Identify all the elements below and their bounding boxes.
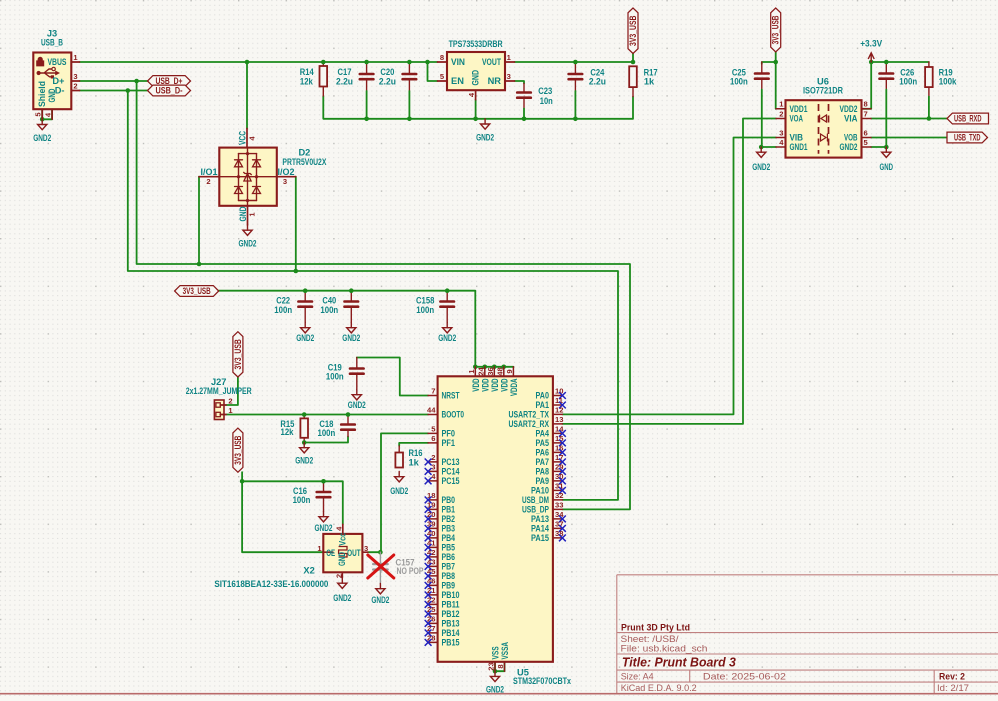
svg-text:X2: X2 xyxy=(303,565,314,575)
svg-text:PA6: PA6 xyxy=(536,448,550,458)
U5 pin 34 PA13 xyxy=(553,518,563,520)
U5 pin 14 PA4 xyxy=(553,432,563,434)
wire R14 top stub xyxy=(322,62,324,66)
junction R15 top xyxy=(302,412,307,417)
svg-text:100k: 100k xyxy=(939,77,958,87)
svg-text:PB9: PB9 xyxy=(442,581,456,591)
svg-text:SIT1618BEA12-33E-16.000000: SIT1618BEA12-33E-16.000000 xyxy=(214,579,328,589)
J3 pin 1 VBUS xyxy=(71,61,79,63)
svg-text:GND2: GND2 xyxy=(371,595,389,605)
title block frame xyxy=(617,575,998,694)
diode D2 PRTR5V0U2X body xyxy=(219,148,276,206)
U5 pin 17 PA7 xyxy=(553,461,563,463)
svg-text:12: 12 xyxy=(555,405,563,414)
junction USB_D+ tee xyxy=(134,79,139,84)
capacitor C158 100n xyxy=(440,300,454,303)
svg-text:7: 7 xyxy=(431,387,435,396)
svg-text:9: 9 xyxy=(505,369,514,373)
X2 crystal symbol xyxy=(339,547,347,558)
capacitor C19 100n xyxy=(350,367,364,370)
U5 pin 24 VDD top xyxy=(484,367,486,377)
svg-text:VBUS: VBUS xyxy=(48,57,67,67)
U6 channel A arrow xyxy=(821,115,827,122)
svg-text:11: 11 xyxy=(555,396,564,405)
svg-text:PF0: PF0 xyxy=(442,429,456,439)
svg-text:PB5: PB5 xyxy=(442,543,456,553)
TPS pin 4 GND xyxy=(475,90,477,100)
svg-text:USART2_RX: USART2_RX xyxy=(509,419,550,429)
D2 pin 3 I/O2 xyxy=(277,176,296,178)
svg-text:R14: R14 xyxy=(300,67,315,77)
wire D2 I/O2 drop to USB_D- run xyxy=(295,177,297,271)
ground GND2 at C22 xyxy=(304,323,306,328)
wire PF1 to R16 xyxy=(399,443,428,446)
svg-text:USB_D-: USB_D- xyxy=(156,85,183,95)
wire BOOT0 from J27 pin1 to U5 xyxy=(226,414,428,416)
svg-text:GND2: GND2 xyxy=(315,523,333,533)
U5 pin 29 PA8 xyxy=(553,470,563,472)
wire C26 vertical xyxy=(885,62,887,72)
svg-text:3: 3 xyxy=(431,462,435,471)
svg-text:100n: 100n xyxy=(416,305,434,315)
ground GND at U6 GND2 xyxy=(885,147,887,152)
resistor R17 1k xyxy=(629,66,637,87)
global label USB_D+ xyxy=(148,76,191,87)
power label 3V3_USB riser at R17 xyxy=(628,8,638,54)
wire 3V3_USB riser2 to C16 and X2 xyxy=(242,472,333,552)
svg-text:I/O1: I/O1 xyxy=(201,167,218,177)
ground GND2 at C158 xyxy=(446,323,448,328)
U6 pin 3 VIB xyxy=(776,137,786,139)
svg-text:Size: A4: Size: A4 xyxy=(621,671,654,681)
wire VSS VSSA join xyxy=(495,662,505,671)
svg-text:GND2: GND2 xyxy=(438,333,456,343)
U5 pin 5 PF0 xyxy=(428,432,438,434)
wire J3 shield-gnd join xyxy=(42,109,52,119)
svg-text:GND2: GND2 xyxy=(296,333,314,343)
svg-text:PB8: PB8 xyxy=(442,571,456,581)
svg-text:PB3: PB3 xyxy=(442,524,456,534)
U6 pin 4 GND1 xyxy=(776,146,786,148)
svg-text:PB0: PB0 xyxy=(442,495,456,505)
svg-text:Vcc: Vcc xyxy=(338,533,348,546)
wire USART2_RX to U6 VOA xyxy=(562,119,776,424)
U5 pin 6 PF1 xyxy=(428,442,438,444)
svg-text:PA7: PA7 xyxy=(536,457,550,467)
svg-text:PA15: PA15 xyxy=(531,533,549,543)
svg-text:PA4: PA4 xyxy=(536,429,550,439)
junction I/O2 xyxy=(294,269,299,274)
svg-text:2: 2 xyxy=(73,82,77,91)
U5 pin 46 PB9 xyxy=(428,584,438,586)
U5 pin 40 PB4 xyxy=(428,537,438,539)
J3 pin 2 D- xyxy=(71,90,79,92)
svg-text:3V3_USB: 3V3_USB xyxy=(771,15,781,44)
svg-text:STM32F070CBTx: STM32F070CBTx xyxy=(513,676,572,686)
X2 pin 4 Vcc xyxy=(342,524,344,534)
U5 pin 13 USART2_RX xyxy=(553,423,563,425)
U6 pin 1 VDD1 xyxy=(776,108,786,110)
svg-text:36: 36 xyxy=(486,367,495,375)
svg-text:100n: 100n xyxy=(326,372,344,382)
capacitor C25 100n xyxy=(755,72,769,75)
wire D2 I/O1 drop to USB_D+ run xyxy=(198,177,200,264)
J3 pin 3 D+ xyxy=(71,80,79,82)
svg-text:D+: D+ xyxy=(52,76,65,86)
svg-text:10n: 10n xyxy=(540,96,553,106)
power label 3V3_USB riser2 xyxy=(233,428,243,472)
svg-text:3: 3 xyxy=(364,544,368,553)
svg-text:VIN: VIN xyxy=(451,57,465,67)
svg-text:100n: 100n xyxy=(730,77,748,87)
svg-text:PC13: PC13 xyxy=(442,457,460,467)
svg-text:33: 33 xyxy=(555,500,563,509)
wire +3.3V rail to C26 and R19 xyxy=(871,61,929,63)
svg-text:PRTR5V0U2X: PRTR5V0U2X xyxy=(282,157,327,167)
junction C25 GND1 xyxy=(759,145,764,150)
svg-text:OE: OE xyxy=(326,548,335,558)
J3 pin 4 GND xyxy=(51,109,53,119)
junction VSS xyxy=(493,669,498,674)
svg-text:6: 6 xyxy=(864,128,868,137)
wire NR to C23 xyxy=(515,81,525,84)
capacitor C16 100n xyxy=(317,491,331,494)
svg-text:100n: 100n xyxy=(318,428,336,438)
svg-text:+3.3V: +3.3V xyxy=(860,39,883,49)
ground GND2 at C40 xyxy=(350,323,352,328)
capacitor C24 2.2u xyxy=(569,73,583,76)
svg-text:C40: C40 xyxy=(322,296,336,306)
junction I/O1 xyxy=(197,262,202,267)
U5 pin 33 USB_DP xyxy=(553,508,563,510)
junction VDD4 pin xyxy=(502,365,507,370)
svg-text:PB13: PB13 xyxy=(442,619,460,629)
svg-text:2: 2 xyxy=(431,453,435,462)
junction C23 bottom xyxy=(522,117,527,122)
TPS pin 8 VIN xyxy=(438,61,448,63)
svg-text:100n: 100n xyxy=(899,77,917,87)
junction C18 top xyxy=(346,412,351,417)
svg-text:GND2: GND2 xyxy=(33,133,51,143)
wire 3V3_USB riser3 to C25 and U6 VDD1 xyxy=(775,51,777,109)
svg-text:PA13: PA13 xyxy=(531,514,549,524)
svg-text:USB_DP: USB_DP xyxy=(522,505,549,515)
svg-text:Sheet: /USB/: Sheet: /USB/ xyxy=(621,634,679,644)
wire VOUT net TPS to R17 and 3V3_USB xyxy=(515,61,634,63)
svg-text:BOOT0: BOOT0 xyxy=(442,410,465,420)
wire VDD pin stubs tie xyxy=(484,366,486,369)
svg-text:USB_TXD: USB_TXD xyxy=(954,132,981,142)
svg-text:2.2u: 2.2u xyxy=(589,77,606,87)
svg-text:12k: 12k xyxy=(281,427,295,437)
wire PF0 to X2 OUT and C157 xyxy=(368,433,428,552)
capacitor C17 2.2u xyxy=(360,73,374,76)
junction R19 VIA xyxy=(927,116,932,121)
ground GND2 at R16 xyxy=(398,472,400,477)
svg-text:100n: 100n xyxy=(274,305,292,315)
U5 pin 38 PA15 xyxy=(553,537,563,539)
svg-text:GND2: GND2 xyxy=(342,333,360,343)
svg-text:3V3_USB: 3V3_USB xyxy=(628,16,638,47)
ground GND2 at U5 VSS xyxy=(494,671,496,676)
D2 pin 2 I/O1 xyxy=(199,176,219,178)
svg-text:GND1: GND1 xyxy=(790,142,808,152)
U5 pin 25 PB12 xyxy=(428,613,438,615)
junction C24 bottom xyxy=(573,117,578,122)
svg-text:NRST: NRST xyxy=(442,391,460,401)
svg-text:USB_RXD: USB_RXD xyxy=(954,113,982,123)
U5 pin 27 PB14 xyxy=(428,632,438,634)
U6 isolation barrier xyxy=(819,104,829,154)
U5 pin 20 PB2 xyxy=(428,518,438,520)
U5 pin 39 PB3 xyxy=(428,527,438,529)
wire USART2_TX to U6 VIB xyxy=(562,138,776,415)
junction C16 top xyxy=(321,479,326,484)
svg-text:2: 2 xyxy=(206,177,210,186)
svg-text:PB11: PB11 xyxy=(442,600,460,610)
wire USB_D- from J3 to label xyxy=(80,90,148,92)
svg-text:GND2: GND2 xyxy=(390,486,408,496)
U5 pin 18 PB0 xyxy=(428,499,438,501)
svg-text:PB15: PB15 xyxy=(442,638,460,648)
U5 pin 11 PA1 xyxy=(553,404,563,406)
svg-text:VDD: VDD xyxy=(480,378,490,391)
svg-text:Shield: Shield xyxy=(37,81,47,107)
junction +3.3V tee xyxy=(869,60,874,65)
U5 pin 42 PB6 xyxy=(428,556,438,558)
ground GND2 at U6 GND1 xyxy=(760,147,762,152)
junction C158 xyxy=(445,288,450,293)
X2 pin 1 OE xyxy=(323,551,333,553)
svg-text:KiCad E.D.A. 9.0.2: KiCad E.D.A. 9.0.2 xyxy=(621,683,697,693)
TPS pin 3 NR xyxy=(505,80,515,82)
U5 pin 45 PB8 xyxy=(428,575,438,577)
U6 pin 2 VOA xyxy=(776,118,786,120)
svg-text:C158: C158 xyxy=(416,296,434,306)
svg-text:VDD: VDD xyxy=(499,378,509,391)
power +3.3V symbol xyxy=(870,55,872,63)
svg-text:3V3_USB: 3V3_USB xyxy=(183,286,211,296)
jumper J27 2x1.27MM_JUMPER body xyxy=(214,400,224,420)
svg-text:VDD: VDD xyxy=(490,378,500,391)
hierarchical label USB_RXD xyxy=(947,113,989,124)
svg-text:VIB: VIB xyxy=(790,133,804,143)
J3 usb shield icon xyxy=(37,57,44,66)
svg-text:Rev: 2: Rev: 2 xyxy=(939,672,965,683)
svg-text:C20: C20 xyxy=(380,67,394,77)
svg-text:VCC: VCC xyxy=(238,131,248,145)
mcu U5 STM32F070CBTx body xyxy=(438,376,553,662)
svg-text:GND: GND xyxy=(880,162,894,172)
U5 pin 22 PB11 xyxy=(428,603,438,605)
svg-text:100n: 100n xyxy=(293,495,311,505)
power label 3V3_USB riser3 xyxy=(771,8,781,52)
svg-text:USB_B: USB_B xyxy=(41,38,63,48)
wire C22 top stub xyxy=(304,291,306,300)
resistor R15 12k xyxy=(300,418,308,437)
junction C20 top xyxy=(407,60,412,65)
svg-text:PC15: PC15 xyxy=(442,476,460,486)
svg-text:VDDA: VDDA xyxy=(509,378,519,396)
U5 pin 7 NRST xyxy=(428,395,438,397)
svg-text:3: 3 xyxy=(73,72,77,81)
junction TPS GND xyxy=(473,117,478,122)
svg-text:3: 3 xyxy=(283,177,287,186)
U5 pin 41 PB5 xyxy=(428,546,438,548)
wire C40 top stub xyxy=(350,291,352,300)
ground GND2 at C16 xyxy=(323,512,325,517)
capacitor C23 10n xyxy=(517,91,531,94)
hierarchical label USB_TXD xyxy=(947,132,988,143)
J27 pin 2 xyxy=(216,403,220,407)
TPS pin 1 VOUT xyxy=(505,61,515,63)
svg-text:PB2: PB2 xyxy=(442,514,456,524)
junction 3V3 riser2 tee xyxy=(240,479,245,484)
svg-text:8: 8 xyxy=(440,53,444,62)
svg-text:GND2: GND2 xyxy=(476,132,494,142)
ground GND2 at D2 xyxy=(247,225,249,230)
svg-text:PA9: PA9 xyxy=(536,476,550,486)
ground GND2 at J3 xyxy=(41,119,43,124)
svg-text:C22: C22 xyxy=(276,296,290,306)
wire NRST to C19 xyxy=(357,358,428,396)
junction C20 bottom xyxy=(407,117,412,122)
wire C16 row to X2 Vcc xyxy=(242,481,343,524)
U5 pin 8 VSSA bottom xyxy=(504,662,506,671)
U5 pin 28 PB15 xyxy=(428,641,438,643)
svg-text:PB12: PB12 xyxy=(442,609,460,619)
wire C25 bottom to GND1 xyxy=(761,80,763,90)
svg-text:GND2: GND2 xyxy=(752,162,770,172)
capacitor C22 100n xyxy=(298,300,312,303)
svg-text:VOUT: VOUT xyxy=(482,57,501,67)
svg-text:USB_DM: USB_DM xyxy=(522,495,549,505)
oscillator X2 body xyxy=(323,534,362,572)
svg-text:13: 13 xyxy=(555,415,563,424)
svg-text:1k: 1k xyxy=(644,77,655,87)
junction X2 OUT tee xyxy=(378,550,383,555)
regulator U? TPS73533DRBR body xyxy=(447,52,505,90)
svg-text:3V3_USB: 3V3_USB xyxy=(233,436,243,465)
svg-text:VSSA: VSSA xyxy=(500,642,510,660)
wire C158 top stub xyxy=(446,291,448,300)
svg-text:7: 7 xyxy=(864,109,868,118)
svg-text:USART2_TX: USART2_TX xyxy=(509,410,550,420)
svg-text:48: 48 xyxy=(495,367,504,375)
svg-text:GND2: GND2 xyxy=(295,456,313,466)
svg-text:6: 6 xyxy=(431,434,435,443)
ground GND2 at C157 xyxy=(379,584,381,589)
capacitor C40 100n xyxy=(345,300,359,303)
ground GND2 at R15 xyxy=(303,443,305,448)
wire GND2 rail under TPS xyxy=(323,96,633,119)
wire C16 top stub xyxy=(323,481,325,490)
U5 pin 37 PA14 xyxy=(553,527,563,529)
X2 pin 3 OUT xyxy=(362,551,368,553)
svg-text:44: 44 xyxy=(427,406,436,415)
wire VIA to USB_RXD xyxy=(871,118,947,120)
U5 pin 32 USB_DM xyxy=(553,499,563,501)
wire TPS GND pin drop xyxy=(475,100,477,119)
junction C40 xyxy=(349,288,354,293)
J27 pin 1 xyxy=(216,412,220,416)
svg-text:2x1.27MM_JUMPER: 2x1.27MM_JUMPER xyxy=(186,386,252,396)
junction R17 top xyxy=(631,60,636,65)
D2 pin 1 GND xyxy=(247,206,249,225)
resistor R14 12k xyxy=(320,66,328,87)
U6 pin 7 VIA xyxy=(862,118,872,120)
svg-text:GND: GND xyxy=(470,70,480,86)
wire 3V3_USB rail to VDD pins xyxy=(219,291,514,368)
junction C24 top xyxy=(573,60,578,65)
svg-text:File: usb.kicad_sch: File: usb.kicad_sch xyxy=(621,644,708,654)
wire R15 top stub xyxy=(303,415,305,419)
wire C17 vertical xyxy=(366,62,368,73)
U5 pin 3 PC14 xyxy=(428,470,438,472)
svg-text:C23: C23 xyxy=(538,86,552,96)
X2 pin 2 GND xyxy=(341,572,343,578)
svg-text:GND: GND xyxy=(47,88,57,102)
svg-text:PB14: PB14 xyxy=(442,628,461,638)
junction C17 top xyxy=(364,60,369,65)
svg-text:8: 8 xyxy=(864,100,868,109)
page border bottom xyxy=(0,693,998,695)
junction R14 top xyxy=(321,60,326,65)
U5 pin 31 PA10 xyxy=(553,489,563,491)
D2 internal bridge xyxy=(239,153,257,155)
D2 pin 4 VCC xyxy=(246,129,248,148)
junction USB_D- tee xyxy=(126,88,131,93)
U5 pin 2 PC13 xyxy=(428,461,438,463)
junction R15 gnd xyxy=(302,440,307,445)
svg-text:3V3_USB: 3V3_USB xyxy=(233,339,243,369)
junction C25 riser xyxy=(773,60,778,65)
wire VBUS net J3 pin1 to TPS VIN xyxy=(80,61,438,63)
wire VBUS drop to D2 VCC xyxy=(246,62,248,129)
junction C26 top xyxy=(884,60,889,65)
svg-text:PA8: PA8 xyxy=(536,467,550,477)
svg-text:PB7: PB7 xyxy=(442,562,456,572)
svg-text:12k: 12k xyxy=(300,76,314,86)
J3 usb trident icon xyxy=(37,71,41,75)
svg-text:GND: GND xyxy=(337,552,347,566)
junction C26 GND2 xyxy=(884,145,889,150)
capacitor C18 100n xyxy=(341,423,355,426)
svg-text:100n: 100n xyxy=(320,305,338,315)
junction C17 bottom xyxy=(364,117,369,122)
U5 pin 9 VDDA top xyxy=(512,367,514,377)
U5 pin 44 BOOT0 xyxy=(428,414,438,416)
U5 pin 26 PB13 xyxy=(428,622,438,624)
junction J3 gnd xyxy=(40,117,45,122)
junction VBUS-VCC xyxy=(245,60,250,65)
power label 3V3_USB horizontal xyxy=(175,286,219,297)
svg-text:VDD: VDD xyxy=(471,378,481,391)
capacitor C26 100n xyxy=(880,72,894,75)
wire EN tee down to TPS EN xyxy=(428,62,438,81)
wire USB_D+ from J3 to label xyxy=(80,80,148,82)
wire 3V3_USB riser to VOUT xyxy=(632,54,634,63)
svg-text:8: 8 xyxy=(496,664,505,668)
U5 pin 16 PA6 xyxy=(553,451,563,453)
wire USB_D- vertical drop and run to USB_DM xyxy=(128,91,618,500)
TPS pin 5 EN xyxy=(438,80,448,82)
ground GND2 at C19 xyxy=(356,390,358,395)
wire C18 top stub xyxy=(347,415,349,424)
svg-text:2: 2 xyxy=(228,397,232,406)
svg-text:23: 23 xyxy=(487,662,496,670)
wire USB_D+ vertical drop and run to USB_DP xyxy=(137,81,630,509)
